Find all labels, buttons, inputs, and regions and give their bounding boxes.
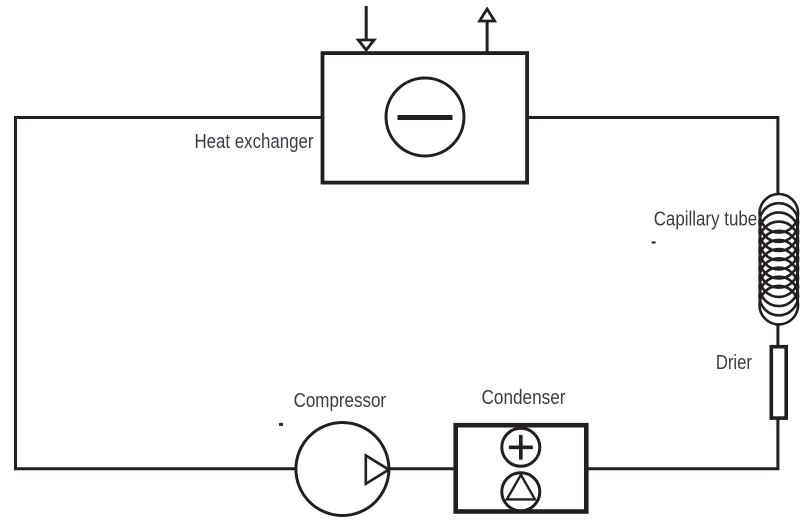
stray mark left of compressor	[279, 423, 283, 426]
wire: drier bottom to bottom-right corner and left to condenser	[588, 418, 778, 469]
stray dash under capillary tube	[652, 241, 656, 243]
svg-text:Capillary tube: Capillary tube	[654, 209, 758, 231]
heat exchanger box	[323, 53, 528, 183]
condenser triangle circle	[502, 473, 540, 511]
down arrow (into heat exchanger)	[365, 6, 368, 40]
svg-text:Heat exchanger: Heat exchanger	[195, 131, 314, 153]
compressor circle	[296, 423, 389, 516]
drier rectangle	[771, 347, 786, 418]
svg-text:Condenser: Condenser	[482, 387, 566, 409]
wire: compressor to condenser	[389, 467, 454, 470]
heat exchanger circle with minus	[386, 78, 464, 156]
wire: coil bottom to drier top	[776, 324, 779, 346]
condenser plus circle	[502, 428, 540, 466]
svg-text:Drier: Drier	[716, 352, 752, 374]
condenser box	[456, 425, 587, 511]
capillary tube coil	[760, 194, 799, 324]
up arrow (out of heat exchanger)	[486, 22, 489, 52]
wire: left loop (top-left horizontal, left vertical, bottom-left horizontal)	[16, 118, 323, 469]
wire: heat exchanger right to top-right corner and down to coil top	[527, 118, 778, 196]
compressor triangle	[366, 456, 389, 484]
svg-text:Compressor: Compressor	[294, 390, 387, 412]
